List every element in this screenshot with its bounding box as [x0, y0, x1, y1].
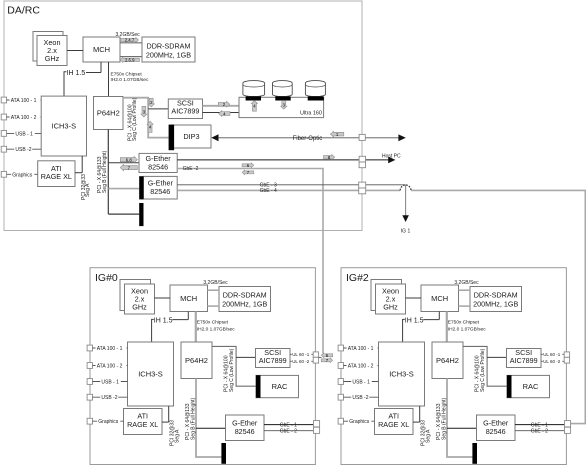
label USB -2 IG#0	[100, 395, 118, 401]
svg-text:E750x Chipset: E750x Chipset	[111, 72, 143, 78]
svg-text:IG#2: IG#2	[346, 272, 369, 284]
wire SCSI UL60-1 IG#2	[541, 353, 564, 355]
wire Seg B to G-Ether 1	[108, 162, 139, 164]
svg-text:RAGE XL: RAGE XL	[127, 420, 158, 429]
wire Fiber-Optic	[219, 137, 363, 139]
wire Graphics to chip	[7, 173, 38, 175]
disk 2 connector bar	[275, 96, 290, 100]
disk 1 connector bar	[246, 96, 261, 100]
wire ATA 100 - 2 IG#0	[93, 365, 128, 367]
connector GbE-4 (DA/RC right edge)	[359, 188, 366, 194]
svg-text:IH 1.5: IH 1.5	[154, 317, 173, 324]
svg-text:USB -2: USB -2	[15, 147, 31, 153]
svg-text:AIC7899: AIC7899	[171, 107, 199, 116]
wire IH1.5 horizontal IG#0	[172, 319, 188, 321]
graphics ATI RAGE XL IG#2	[375, 409, 414, 435]
wire USB - 1 to chip	[7, 132, 42, 134]
connector ATA 100 - 2 (DA/RC left edge)	[1, 114, 6, 120]
RAC PCI-X segment bar IG#0	[256, 375, 261, 398]
flow arrow 3 (write to disk 2)	[281, 101, 287, 110]
G-Ether 2 PCI-X segment bar	[139, 176, 143, 199]
connector GbE-2 (DA/RC right edge)	[359, 162, 365, 168]
flow arrow 7 (from G-Ether)	[120, 164, 137, 170]
svg-text:82546: 82546	[235, 427, 255, 436]
flow arrow 4 (read from disk 1)	[251, 101, 257, 112]
svg-text:Seg C (Low Profile): Seg C (Low Profile)	[229, 348, 235, 392]
processor Xeon IG#0	[125, 284, 155, 314]
svg-text:USB -2: USB -2	[101, 395, 117, 401]
svg-text:Host PC: Host PC	[382, 153, 401, 159]
svg-text:Seg A: Seg A	[425, 429, 431, 443]
flow arrow 7 (GbE-2 return)	[242, 170, 254, 175]
disk shelf Ultra 160	[239, 97, 324, 117]
label ATA 100 - 1 IG#0	[96, 346, 127, 352]
flow arrow 2 (down Seg C)	[148, 98, 154, 107]
subsystem container DA/RC	[4, 1, 362, 231]
svg-text:ATA 100 - 2: ATA 100 - 2	[11, 115, 37, 121]
flow arrow 6.8 (to G-Ether)	[120, 156, 137, 162]
south bridge ICH3-S	[41, 96, 86, 156]
svg-text:DDR-SDRAM: DDR-SDRAM	[474, 290, 518, 299]
disk drive 3	[305, 81, 325, 97]
svg-text:Seg C (Low Profile): Seg C (Low Profile)	[480, 348, 486, 392]
wire IH1.5 horizontal IG#2	[423, 319, 439, 321]
wire GbE-2 IG#2	[515, 430, 571, 432]
label ATA 100 - 1 IG#2	[347, 346, 378, 352]
wire Xeon to MCH IG#0	[155, 297, 171, 299]
wire Seg A horizontal IG#0	[162, 421, 169, 423]
wire Xeon to MCH IG#2	[406, 297, 422, 299]
connector USB - 1 (DA/RC left edge)	[1, 131, 6, 137]
arrowhead Fiber-Optic out	[398, 134, 405, 141]
flow arrow 7 (out of IG#0)	[321, 358, 333, 363]
RAC PCI-X segment bar IG#2	[507, 375, 512, 398]
MCH north bridge IG#2	[421, 285, 459, 312]
wire Graphics IG#0	[93, 420, 124, 422]
svg-text:USB -2: USB -2	[352, 395, 368, 401]
wire SCSI UL60-2 IG#0	[290, 360, 313, 362]
wire disks to SCSI (read)	[203, 112, 240, 114]
svg-text:USB - 1: USB - 1	[15, 131, 33, 137]
wire MCH down IH1.5 IG#2	[438, 312, 440, 320]
NIC G-Ether 82546 (first)	[139, 153, 177, 172]
wire ICH3-S to ATI IG#2	[419, 406, 421, 422]
svg-text:Graphics: Graphics	[349, 419, 370, 425]
wire USB -2 to chip	[7, 148, 42, 150]
wire GbE-2 to IG#0	[177, 169, 323, 354]
memory DDR-SDRAM IG#2	[470, 287, 522, 312]
svg-text:2.4.7: 2.4.7	[125, 38, 135, 43]
svg-text:82546: 82546	[148, 162, 168, 171]
wire USB - 1 IG#0	[93, 381, 128, 383]
flow arrow 4 (disk to SCSI)	[219, 111, 230, 117]
svg-text:RAC: RAC	[272, 382, 288, 391]
flow arrow 3 (down to DIP3)	[141, 106, 147, 117]
NIC G-Ether 82546 IG#2	[477, 415, 516, 441]
PCI-X bridge P64H2 IG#0	[181, 342, 212, 379]
svg-text:82546: 82546	[150, 187, 170, 196]
svg-text:IH2.0 1.07GB/sec: IH2.0 1.07GB/sec	[448, 326, 486, 332]
connector GbE-2 (IG#2 right edge)	[565, 427, 571, 433]
wire GbE-1 to Host PC	[177, 159, 389, 161]
disk drive 1	[243, 81, 265, 97]
svg-text:GbE - 4: GbE - 4	[260, 188, 277, 194]
NIC G-Ether 82546 IG#0	[226, 415, 265, 441]
wire SCSI UL60-1 IG#0	[290, 353, 313, 355]
svg-text:200MHz, 1GB: 200MHz, 1GB	[473, 299, 518, 308]
disk 3 connector bar	[308, 96, 324, 100]
PCI-X bridge P64H2	[94, 97, 124, 130]
svg-text:Fiber-Optic: Fiber-Optic	[293, 136, 323, 142]
wire ICH3-S to ATI (Seg A)	[81, 156, 83, 173]
connector UL 60-2 (IG#2 right edge)	[564, 357, 569, 363]
bus PCI-X Seg C IG#2	[463, 346, 507, 386]
svg-text:IH 1.5: IH 1.5	[67, 70, 86, 77]
MCH north bridge IG#0	[170, 285, 208, 312]
SCSI controller AIC7899 IG#0	[256, 349, 291, 368]
label UL 60-1 IG#2	[543, 353, 563, 359]
wire Seg C branch to SCSI	[148, 108, 168, 110]
svg-text:MCH: MCH	[93, 45, 110, 54]
connector GbE-1 (IG#2 right edge)	[565, 421, 571, 427]
Seg B terminator bar	[139, 203, 143, 226]
wire arrows to UL60 connectors	[319, 356, 322, 358]
svg-text:UL 60 -1: UL 60 -1	[543, 352, 561, 357]
subsystem container IG#0	[90, 268, 315, 465]
svg-text:E750x Chipset: E750x Chipset	[197, 319, 229, 325]
wire IH1.5 to ICH3-S IG#2	[403, 319, 405, 342]
connector USB -2 (IG#2 left edge)	[338, 394, 343, 400]
RAC remote access card IG#0	[256, 375, 299, 397]
label USB - 1 IG#2	[351, 380, 372, 386]
svg-text:USB - 1: USB - 1	[101, 380, 119, 386]
wire GbE-3	[177, 184, 405, 186]
svg-text:ATA 100 - 1: ATA 100 - 1	[11, 98, 37, 104]
svg-text:AIC7899: AIC7899	[259, 356, 287, 365]
svg-text:3.2GB/Sec: 3.2GB/Sec	[454, 280, 479, 286]
svg-text:GbE -2: GbE -2	[183, 166, 199, 172]
wire USB -2 IG#2	[344, 396, 379, 398]
wire Seg A horizontal IG#2	[413, 421, 420, 423]
svg-text:ICH3-S: ICH3-S	[52, 121, 77, 130]
label UL 60-2 IG#0	[292, 360, 312, 366]
flow arrow 6 (GbE-2)	[242, 163, 254, 168]
svg-text:Seg B (Full Height): Seg B (Full Height)	[190, 397, 196, 440]
svg-text:3.2GB/Sec: 3.2GB/Sec	[203, 280, 228, 286]
wire DDR to MCH IG#2	[459, 305, 471, 307]
arrowhead Host PC	[388, 157, 395, 164]
label Graphics IG#0	[97, 419, 120, 425]
label ATA 100 - 1	[10, 98, 41, 104]
wire MCH to DDR IG#0	[208, 289, 220, 291]
svg-text:GbE - 1: GbE - 1	[531, 422, 548, 428]
wire MCH down (IH1.5 link)	[100, 62, 102, 73]
processor Xeon (back shadow box) IG#2	[371, 280, 402, 311]
svg-text:200MHz, 1GB: 200MHz, 1GB	[222, 299, 267, 308]
connector UL 60-1 (IG#2 right edge)	[564, 352, 569, 357]
wire ATA 100 - 1 IG#0	[93, 347, 128, 349]
svg-text:GHz: GHz	[45, 54, 60, 63]
connector USB -2 (IG#0 left edge)	[87, 394, 92, 400]
wire SCSI UL60-2 IG#2	[541, 360, 564, 362]
wire GbE-3 drop to IG 1	[405, 185, 407, 217]
wire GbE-4 (left of hop)	[177, 189, 400, 191]
svg-text:IH2.0 1.07GB/sec: IH2.0 1.07GB/sec	[111, 77, 149, 83]
svg-text:P64H2: P64H2	[185, 356, 208, 365]
wire ATA 100 - 1 to chip	[7, 99, 42, 101]
bus PCI-X Seg B vertical	[107, 130, 109, 215]
svg-text:MCH: MCH	[431, 294, 448, 303]
arrowhead into DIP3 (Fiber-Optic)	[211, 134, 218, 141]
svg-text:ICH3-S: ICH3-S	[138, 370, 163, 379]
processor Xeon (back shadow box)	[33, 32, 63, 62]
svg-text:RAGE XL: RAGE XL	[378, 420, 409, 429]
Seg B terminator bar IG#2	[472, 443, 477, 464]
label Graphics IG#2	[348, 419, 371, 425]
processor Xeon IG#2	[376, 284, 406, 314]
label ATA 100 - 2 IG#0	[96, 364, 127, 370]
processor Xeon	[37, 36, 67, 66]
svg-text:ATA 100 - 1: ATA 100 - 1	[97, 346, 123, 352]
svg-text:Graphics: Graphics	[98, 419, 119, 425]
connector GbE-1 (IG#0 right edge)	[314, 421, 320, 427]
svg-text:Seg B (Full Height): Seg B (Full Height)	[441, 397, 447, 440]
arrowhead IG 1	[402, 215, 409, 222]
memory DDR-SDRAM	[142, 37, 195, 62]
svg-text:2.6.9: 2.6.9	[125, 58, 135, 63]
wire GbE-2 IG#0	[264, 430, 320, 432]
SCSI controller AIC7899	[168, 99, 202, 119]
connector GbE-1 (DA/RC right edge)	[359, 156, 365, 162]
wire ATA 100 - 1 IG#2	[344, 347, 379, 349]
RAC remote access card IG#2	[507, 375, 550, 397]
svg-text:MCH: MCH	[180, 294, 197, 303]
label ATA 100 - 2 IG#2	[347, 364, 378, 370]
label USB - 1 IG#0	[100, 380, 121, 386]
wire USB -2 IG#0	[93, 396, 128, 398]
svg-text:Seg B (Full Height): Seg B (Full Height)	[102, 150, 108, 193]
connector ATA 100 - 2 (IG#0 left edge)	[87, 363, 92, 369]
svg-text:DIP3: DIP3	[183, 132, 199, 141]
connector USB - 1 (IG#0 left edge)	[87, 379, 92, 385]
svg-text:82546: 82546	[486, 427, 506, 436]
connector Graphics (DA/RC left edge)	[1, 171, 6, 177]
svg-text:GHz: GHz	[383, 303, 398, 312]
svg-text:Seg A: Seg A	[85, 183, 91, 197]
connector ATA 100 - 1 (DA/RC left edge)	[1, 97, 6, 103]
wire Seg C to SCSI IG#2	[487, 356, 506, 358]
svg-text:UL 60 -2: UL 60 -2	[292, 359, 310, 364]
svg-text:GbE - 2: GbE - 2	[280, 429, 297, 435]
svg-text:Ultra 160: Ultra 160	[300, 110, 322, 116]
wire Xeon to MCH	[67, 50, 83, 52]
svg-text:P64H2: P64H2	[97, 109, 120, 118]
wire Fiber-Optic external	[362, 137, 400, 139]
connector USB - 1 (IG#2 left edge)	[338, 379, 343, 385]
flow arrow 1 (Fiber-Optic in)	[330, 131, 343, 137]
wire GbE-1 IG#2	[515, 424, 571, 426]
connector ATA 100 - 1 (IG#2 left edge)	[338, 345, 343, 351]
label UL 60-2 IG#2	[543, 360, 563, 366]
wire ICH3-S to ATI IG#0	[168, 406, 170, 422]
PCI-X bridge P64H2 IG#2	[432, 342, 463, 379]
svg-text:ATA 100 - 1: ATA 100 - 1	[348, 346, 374, 352]
SCSI controller AIC7899 IG#2	[507, 349, 542, 368]
wire Seg B to G-Ether IG#2	[447, 427, 477, 429]
svg-text:200MHz, 1GB: 200MHz, 1GB	[146, 50, 191, 59]
connector UL 60-1 (IG#0 right edge)	[313, 352, 318, 357]
label ATA 100 - 2	[10, 115, 41, 121]
network processor DIP3	[171, 125, 211, 148]
bus MCH to P64H2 IG#0	[195, 312, 197, 343]
svg-text:GHz: GHz	[132, 303, 147, 312]
connector Graphics (IG#0 left edge)	[87, 418, 92, 424]
flow arrow 4 (up Seg C)	[147, 121, 153, 132]
connector GbE-3 (DA/RC right edge)	[359, 182, 366, 188]
label Graphics	[11, 172, 34, 178]
wire Seg B to G-Ether IG#0	[196, 427, 226, 429]
flow arrow 8 (GbE-1 out)	[324, 155, 335, 160]
svg-text:6.8: 6.8	[126, 157, 133, 162]
connector Graphics (IG#2 left edge)	[338, 418, 343, 424]
wire IH1.5 to ICH3-S IG#0	[152, 319, 154, 342]
label UL 60-1 IG#0	[292, 353, 312, 359]
connector ATA 100 - 2 (IG#2 left edge)	[338, 363, 343, 369]
wire GbE-1 IG#0	[264, 424, 320, 426]
flow arrow 6 (into IG#0)	[321, 353, 333, 358]
wire ATA 100 - 2 IG#2	[344, 365, 379, 367]
wire SCSI to disks (write)	[203, 105, 240, 107]
svg-text:DDR-SDRAM: DDR-SDRAM	[223, 290, 267, 299]
svg-text:DDR-SDRAM: DDR-SDRAM	[147, 41, 191, 50]
wire USB - 1 IG#2	[344, 381, 379, 383]
wire GbE-4 to IG#2 (right of hop)	[411, 190, 585, 423]
wire MCH down IH1.5 IG#0	[187, 312, 189, 320]
svg-text:Seg A: Seg A	[174, 429, 180, 443]
flow arrow 2 (SCSI to disk)	[218, 101, 229, 107]
svg-text:E750x Chipset: E750x Chipset	[448, 319, 480, 325]
bus PCI-X Seg B IG#2	[447, 379, 472, 458]
connector ATA 100 - 1 (IG#0 left edge)	[87, 345, 92, 351]
label USB - 1	[14, 131, 35, 137]
connector Fiber-Optic (DA/RC right edge)	[359, 134, 365, 140]
south bridge ICH3-S IG#0	[128, 342, 174, 406]
processor Xeon (back shadow box) IG#0	[120, 280, 151, 311]
svg-text:P64H2: P64H2	[436, 356, 459, 365]
svg-text:USB - 1: USB - 1	[352, 380, 370, 386]
wire Graphics IG#2	[344, 420, 375, 422]
flow arrow 2.4.7 (MCH to DDR)	[121, 38, 139, 43]
svg-text:GbE - 1: GbE - 1	[280, 422, 297, 428]
connector USB -2 (DA/RC left edge)	[1, 146, 6, 152]
wire IH1.5 down to ICH3-S	[64, 72, 66, 97]
svg-text:IG#0: IG#0	[95, 272, 118, 284]
svg-text:IH2.0 1.07GB/sec: IH2.0 1.07GB/sec	[197, 326, 235, 332]
svg-text:AIC7899: AIC7899	[510, 356, 538, 365]
bus PCI-X Seg C IG#0	[212, 346, 256, 386]
svg-text:ATA 100 - 2: ATA 100 - 2	[348, 364, 374, 370]
wire ATA 100 - 2 to chip	[7, 116, 42, 118]
subsystem container IG#2	[341, 268, 566, 465]
svg-text:Seg C (Low Profile): Seg C (Low Profile)	[132, 97, 138, 141]
svg-text:IH 1.5: IH 1.5	[405, 317, 424, 324]
svg-text:ATA 100 - 2: ATA 100 - 2	[97, 364, 123, 370]
svg-text:UL 60 -2: UL 60 -2	[543, 359, 561, 364]
svg-text:Graphics: Graphics	[12, 172, 33, 178]
wire hop (dashed arc) GbE-4 over IG 1 drop	[400, 185, 411, 190]
bus PCI-X Seg C (P64H2 to DIP3)	[123, 98, 169, 138]
south bridge ICH3-S IG#2	[379, 342, 425, 406]
wire Seg B to G-Ether 2	[108, 188, 139, 190]
DIP3 PCI-X segment bar	[169, 125, 175, 151]
bus PCI-X Seg B IG#0	[196, 379, 221, 458]
svg-text:GbE - 2: GbE - 2	[531, 429, 548, 435]
svg-text:DA/RC: DA/RC	[7, 5, 40, 17]
graphics ATI RAGE XL IG#0	[124, 409, 163, 435]
bus MCH to P64H2 IG#2	[446, 312, 448, 343]
wire DDR to MCH IG#0	[208, 305, 220, 307]
svg-text:RAC: RAC	[523, 382, 539, 391]
disk drive 2	[273, 81, 293, 97]
wire MCH to P64H2 (hub link)	[108, 62, 110, 97]
connector UL 60-2 (IG#0 right edge)	[313, 357, 318, 363]
wire Seg C to SCSI IG#0	[236, 356, 255, 358]
label USB -2	[14, 147, 32, 153]
wire MCH to DDR IG#2	[459, 289, 471, 291]
wire IH1.5 horizontal	[86, 72, 101, 74]
memory DDR-SDRAM IG#0	[219, 287, 271, 312]
connector GbE-2 (IG#0 right edge)	[314, 427, 320, 433]
Seg B terminator bar IG#0	[221, 443, 226, 464]
label USB -2 IG#2	[351, 395, 369, 401]
wire Seg A horizontal	[75, 172, 82, 174]
NIC G-Ether 82546 (second)	[144, 176, 178, 199]
flow arrow 2.6.9 (DDR to MCH)	[120, 57, 140, 62]
MCH north bridge U-MCH	[83, 37, 120, 62]
wire DDR to MCH (lower bus)	[120, 56, 142, 58]
svg-text:ICH3-S: ICH3-S	[389, 370, 414, 379]
wire MCH to DDR (upper bus)	[120, 42, 142, 44]
svg-text:RAGE XL: RAGE XL	[41, 172, 72, 181]
svg-text:IG 1: IG 1	[401, 229, 411, 235]
svg-text:UL 60 -1: UL 60 -1	[292, 352, 310, 357]
wire Seg B to terminator	[108, 213, 139, 215]
graphics ATI RAGE XL	[38, 161, 75, 187]
